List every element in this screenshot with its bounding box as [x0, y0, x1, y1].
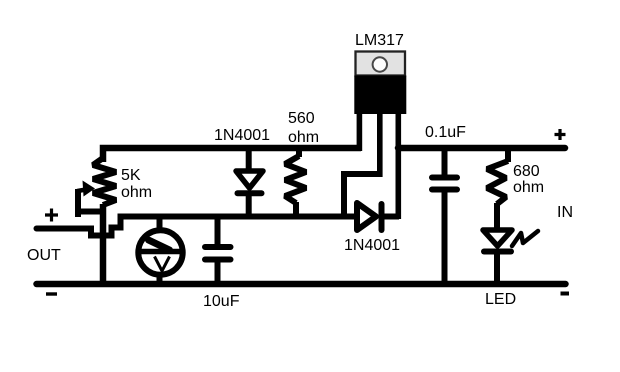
LED cathode bar — [484, 249, 511, 255]
wire: top ADJ rail from potentiometer to U1 pin1 — [103, 148, 361, 162]
label D1 1N4001 — [214, 127, 270, 144]
label C1 value 10uF — [203, 293, 240, 310]
svg-text:ohm: ohm — [121, 184, 152, 201]
potentiometer VR1 5K zigzag — [93, 158, 116, 205]
wire: VR1 bottom lead to ground rail — [100, 204, 107, 283]
wire: OUT+ staircase into mid OUT rail to D2 anode — [37, 217, 358, 236]
svg-text:10uF: 10uF — [203, 293, 240, 310]
wire: mid rail from D2 cathode to U1 pin3 leg — [383, 214, 399, 220]
diode D2 cathode bar — [379, 204, 385, 230]
svg-text:IN: IN — [557, 204, 573, 221]
label R1 value 560 ohm — [288, 110, 315, 127]
capacitor C2 bottom lead — [442, 192, 448, 284]
diode D1 1N4001 top lead — [246, 150, 252, 170]
label C2 value 0.1uF — [425, 124, 466, 141]
wire: bottom common rail — [37, 281, 566, 288]
LED triangle — [483, 230, 512, 246]
U1 leg pin2 OUT — [377, 114, 383, 177]
voltmeter M1 top lead — [157, 217, 163, 231]
LED light flash arrow — [512, 231, 538, 246]
resistor R1 bottom lead — [293, 202, 299, 216]
capacitor C1 plates — [205, 247, 231, 260]
U1 mounting hole — [373, 57, 387, 71]
svg-text:OUT: OUT — [27, 247, 61, 264]
label IN — [557, 204, 573, 221]
capacitor C1 bottom lead — [215, 262, 221, 284]
resistor R2 680 top lead — [505, 150, 511, 162]
voltmeter M1 body — [138, 230, 182, 274]
LED bottom lead — [494, 253, 500, 284]
diode D1 bottom lead — [246, 195, 252, 216]
wire: IN+ rail from U1 pin3 to right terminal — [398, 145, 565, 152]
U1 leg pin3 IN — [396, 114, 402, 219]
voltmeter M1 needle — [149, 240, 170, 250]
diode D2 1N4001 triangle — [357, 203, 376, 230]
voltmeter M1 chord — [138, 249, 184, 255]
terminal IN + — [555, 129, 566, 140]
U1 leg pin1 ADJ — [357, 114, 363, 151]
svg-text:LED: LED — [485, 291, 516, 308]
wire: U1 pin2 step-down to OUT rail — [344, 174, 380, 215]
svg-text:1N4001: 1N4001 — [214, 127, 270, 144]
voltmeter M1 V mark — [155, 257, 170, 272]
terminal IN - — [561, 292, 570, 296]
VR1 wiper arrow — [78, 190, 87, 192]
svg-text:ohm: ohm — [288, 129, 319, 146]
label VR1 value 5K ohm — [121, 167, 141, 184]
resistor R2 bottom lead — [494, 203, 500, 229]
svg-text:1N4001: 1N4001 — [344, 237, 400, 254]
label OUT — [27, 247, 61, 264]
voltmeter M1 bottom lead — [157, 273, 163, 284]
capacitor C2 plates — [432, 178, 457, 190]
resistor R2 680 zigzag — [487, 161, 508, 204]
terminal OUT + — [45, 209, 58, 222]
svg-text:560: 560 — [288, 110, 315, 127]
diode D1 cathode bar — [238, 190, 262, 196]
regulator U1 LM317 tab — [356, 52, 406, 76]
capacitor C2 0.1uF top lead — [442, 150, 448, 175]
label R2 value 680 ohm — [513, 163, 540, 180]
label U1 LM317 — [355, 32, 404, 49]
label D2 1N4001 — [344, 237, 400, 254]
svg-text:5K: 5K — [121, 167, 141, 184]
svg-text:ohm: ohm — [513, 179, 544, 196]
label LED — [485, 291, 516, 308]
resistor R1 560 zigzag — [285, 156, 306, 203]
svg-text:680: 680 — [513, 163, 540, 180]
terminal OUT - — [46, 292, 57, 295]
capacitor C1 10uF top lead — [215, 217, 221, 244]
resistor R1 560 top lead — [296, 150, 302, 157]
svg-text:0.1uF: 0.1uF — [425, 124, 466, 141]
wire: VR1 wiper loop — [76, 189, 103, 217]
svg-text:LM317: LM317 — [355, 32, 404, 49]
U1 body — [354, 76, 406, 115]
diode D1 triangle — [236, 171, 263, 188]
